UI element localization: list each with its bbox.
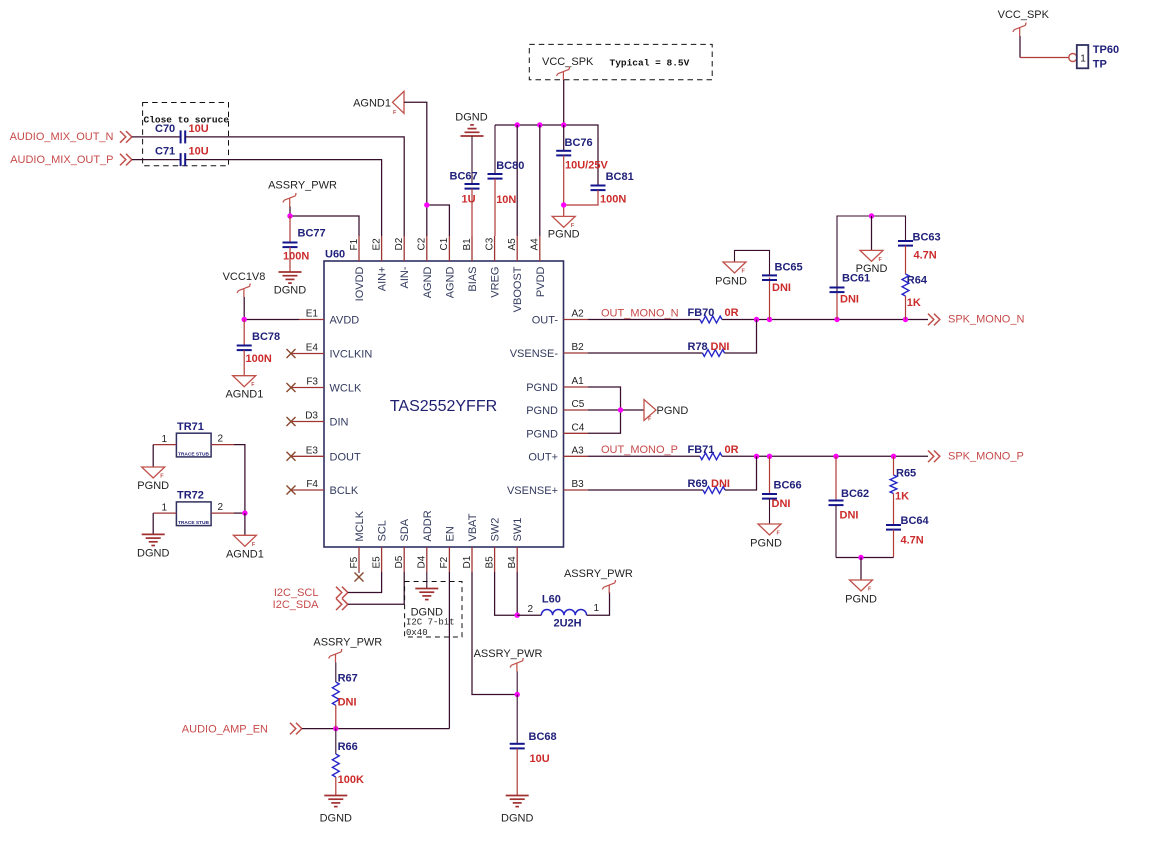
pin E5 SCL (bottom)	[381, 547, 383, 572]
svg-text:BC66: BC66	[774, 480, 802, 492]
svg-text:SW1: SW1	[512, 518, 524, 542]
pin 2 (TR72)	[211, 512, 234, 514]
pin C3 VREG (top)	[494, 236, 496, 261]
pin F5 MCLK (bottom)	[358, 547, 360, 572]
capacitor BC76	[563, 125, 565, 151]
svg-text:I2C_SCL: I2C_SCL	[274, 587, 319, 599]
ground DGND (BC68)	[506, 796, 529, 807]
svg-text:C2: C2	[417, 237, 428, 250]
wire ASSRY_PWR to IOVDD pin F1	[290, 216, 359, 236]
ground AGND1 (TR71/TR72)	[233, 535, 256, 546]
svg-text:E5: E5	[371, 556, 382, 569]
svg-text:PGND: PGND	[526, 428, 558, 440]
ground PGND (TR71)	[142, 467, 165, 478]
capacitor BC62	[835, 456, 837, 500]
node junction BC61 tap	[834, 317, 839, 322]
svg-text:1: 1	[161, 434, 167, 445]
svg-text:100N: 100N	[283, 251, 309, 263]
ground DGND (ADDR)	[415, 589, 438, 600]
pin E2 AIN+ (top)	[381, 236, 383, 261]
wire EN pin F2 down	[448, 572, 450, 729]
svg-text:VCC_SPK: VCC_SPK	[542, 56, 594, 68]
wire R65 to BC64	[893, 494, 895, 526]
pin C1 AGND (top)	[448, 236, 450, 261]
wire to PGND (snubber)	[860, 558, 862, 581]
svg-text:I2C 7-bit: I2C 7-bit	[406, 618, 455, 628]
capacitor BC68	[516, 695, 518, 744]
svg-text:DNI: DNI	[840, 294, 859, 306]
svg-text:BC81: BC81	[606, 171, 634, 183]
wire L60 pin 1 to ASSRY_PWR	[587, 592, 610, 615]
svg-text:OUT-: OUT-	[532, 315, 559, 327]
wire TR72 pin2 to AGND1	[234, 512, 245, 514]
svg-text:TR71: TR71	[177, 421, 204, 433]
node junction PGND drop (BC61 net)	[869, 213, 874, 218]
svg-text:IOVDD: IOVDD	[354, 266, 366, 301]
svg-text:TAS2552YFFR: TAS2552YFFR	[390, 398, 497, 415]
svg-text:DGND: DGND	[274, 285, 306, 297]
svg-text:DIN: DIN	[330, 417, 349, 429]
wire BC78 to AGND1	[243, 350, 245, 376]
svg-text:A3: A3	[572, 445, 585, 456]
svg-text:10U: 10U	[189, 146, 209, 158]
pin 1 (TR72)	[153, 512, 176, 514]
svg-text:BC65: BC65	[775, 262, 803, 274]
svg-text:2: 2	[528, 604, 534, 615]
pin D3 DIN (left)	[291, 421, 324, 423]
node junction at BC77 top	[287, 213, 292, 218]
no-connect X at pin D3	[287, 417, 296, 426]
wire TR72 pin1 to DGND	[152, 513, 154, 534]
wire VCC_SPK stem down to net	[563, 80, 565, 125]
svg-text:BC64: BC64	[901, 515, 930, 527]
svg-text:DNI: DNI	[338, 697, 357, 709]
svg-text:PGND: PGND	[845, 594, 877, 606]
svg-text:SPK_MONO_N: SPK_MONO_N	[948, 314, 1024, 326]
svg-text:F1: F1	[349, 238, 360, 250]
pin A5 VBOOST (top)	[516, 236, 518, 261]
svg-text:10U: 10U	[530, 753, 550, 765]
svg-text:DNI: DNI	[772, 498, 791, 510]
svg-text:4.7N: 4.7N	[914, 250, 937, 262]
pin F4 BCLK (left)	[291, 489, 324, 491]
svg-text:F2: F2	[439, 556, 450, 568]
node junction R78 tap	[754, 317, 759, 322]
svg-text:0R: 0R	[725, 307, 739, 319]
wire R66 to DGND	[335, 777, 337, 796]
testpoint TP60 pin circle	[1069, 54, 1077, 62]
pin A1 PGND (right)	[564, 386, 589, 388]
svg-text:A1: A1	[572, 376, 585, 387]
svg-text:I2C_SDA: I2C_SDA	[273, 599, 320, 611]
svg-text:PGND: PGND	[526, 382, 558, 394]
wire net to VBOOST pin A5	[516, 125, 518, 236]
pin C4 PGND (right)	[564, 432, 589, 434]
svg-text:SW2: SW2	[490, 518, 502, 542]
svg-text:0R: 0R	[725, 444, 739, 456]
svg-text:E1: E1	[306, 309, 319, 320]
svg-text:VBAT: VBAT	[467, 513, 479, 541]
svg-text:AVDD: AVDD	[330, 315, 360, 327]
svg-text:B3: B3	[572, 479, 585, 490]
svg-text:PGND: PGND	[526, 405, 558, 417]
wire I2C_SCL to SCL pin E5	[348, 572, 382, 593]
svg-text:R65: R65	[896, 468, 916, 480]
node junction R69 tap	[754, 454, 759, 459]
wire I2C_SDA to SDA pin D5	[348, 572, 404, 604]
node junction BC66 tap	[767, 454, 772, 459]
svg-text:AGND1: AGND1	[353, 97, 391, 109]
wire AUDIO_MIX_OUT_N to C70	[132, 136, 181, 138]
ground DGND (R66)	[324, 796, 347, 807]
svg-text:EN: EN	[444, 526, 456, 541]
node junction VBAT/BC68	[515, 692, 520, 697]
note box I2C address (dashed)	[405, 582, 462, 638]
svg-text:R64: R64	[907, 275, 928, 287]
ground PGND (BC76)	[552, 216, 575, 227]
pin B1 BIAS (top)	[471, 236, 473, 261]
svg-text:1U: 1U	[462, 194, 476, 206]
wire VCC1V8 to AVDD pin E1	[244, 319, 299, 321]
pin 1 (TR71)	[153, 444, 176, 446]
capacitor BC80	[494, 125, 496, 174]
svg-text:A5: A5	[507, 238, 518, 251]
note box VCC_SPK Typical = 8.5V (dashed)	[529, 44, 712, 79]
wire C70 to AIN- pin D2	[185, 137, 404, 236]
no-connect X at pin E4	[287, 349, 296, 358]
svg-text:ASSRY_PWR: ASSRY_PWR	[313, 637, 382, 649]
ground PGND (snubber)	[850, 580, 873, 591]
no-connect X at pin F5 MCLK	[358, 572, 360, 573]
svg-text:F4: F4	[306, 479, 318, 490]
capacitor BC66	[769, 456, 771, 494]
wire BC61/R64 top link	[836, 292, 838, 320]
svg-text:A2: A2	[572, 309, 585, 320]
note box 'Close to soruce' (dashed)	[143, 103, 229, 166]
pin A2 OUT- (right)	[564, 319, 589, 321]
wire BC77 to DGND	[289, 247, 291, 272]
ground PGND (BC66)	[758, 524, 781, 535]
wire R69 up to OUT_MONO_P net	[725, 456, 757, 490]
svg-text:AUDIO_MIX_OUT_P: AUDIO_MIX_OUT_P	[10, 154, 113, 166]
svg-text:ASSRY_PWR: ASSRY_PWR	[474, 648, 543, 660]
svg-text:ASSRY_PWR: ASSRY_PWR	[564, 568, 633, 580]
node junction VCC_SPK stem	[561, 122, 566, 127]
svg-text:F5: F5	[349, 556, 360, 568]
wire FB70 to SPK_MONO_N port	[722, 319, 928, 321]
svg-text:TR72: TR72	[177, 490, 204, 502]
svg-text:IVCLKIN: IVCLKIN	[330, 349, 373, 361]
svg-text:BCLK: BCLK	[330, 485, 359, 497]
svg-text:D3: D3	[305, 411, 318, 422]
wire snubber bottom tie	[836, 557, 894, 559]
svg-text:WCLK: WCLK	[330, 383, 362, 395]
svg-text:PGND: PGND	[750, 538, 782, 550]
pin F3 WCLK (left)	[291, 387, 324, 389]
no-connect X at pin F4	[287, 486, 296, 495]
wire BC81 to PGND node	[564, 190, 598, 205]
svg-text:BC78: BC78	[252, 331, 280, 343]
trace stub TR72	[176, 502, 211, 526]
svg-text:TRACE STUB: TRACE STUB	[178, 452, 209, 458]
port AUDIO_MIX_OUT_N	[120, 131, 132, 143]
svg-text:R66: R66	[338, 741, 358, 753]
node junction AGND at C2 column	[424, 202, 429, 207]
wire AUDIO_AMP_EN	[302, 728, 450, 730]
svg-text:DGND: DGND	[455, 112, 487, 124]
port AUDIO_MIX_OUT_P	[120, 154, 132, 166]
wire R67 to AUDIO_AMP_EN node	[335, 705, 337, 728]
wire OUT- to FB70	[588, 319, 700, 321]
svg-text:100N: 100N	[246, 353, 272, 365]
svg-text:R78: R78	[688, 341, 708, 353]
svg-text:DGND: DGND	[137, 548, 169, 560]
svg-text:4.7N: 4.7N	[901, 535, 924, 547]
capacitor BC64	[886, 525, 901, 530]
node junction PGND tie	[618, 407, 623, 412]
svg-text:C3: C3	[484, 237, 495, 250]
ground PGND (right-pointing, pins A1/C5/C4)	[644, 400, 656, 421]
wire VCC_SPK horizontal net	[495, 125, 598, 186]
svg-text:DGND: DGND	[501, 813, 533, 825]
svg-text:2U2H: 2U2H	[554, 618, 582, 630]
svg-text:BC63: BC63	[913, 232, 941, 244]
svg-text:10N: 10N	[496, 194, 516, 206]
capacitor C70	[181, 130, 186, 143]
wire SW node to L60 pin 2	[517, 614, 541, 616]
wire PGND pins A1,C5,C4 tie	[588, 387, 621, 433]
port AUDIO_AMP_EN	[290, 723, 302, 735]
wire BC80 to VREG pin C3	[494, 179, 496, 236]
pin D4 ADDR (bottom)	[426, 547, 428, 572]
wire SW2 pin B5 to SW node	[495, 572, 518, 615]
svg-text:B1: B1	[462, 238, 473, 251]
node junction TR71/TR72 pin2	[242, 510, 247, 515]
capacitor BC78	[243, 320, 245, 346]
capacitor C71	[181, 153, 186, 166]
svg-text:E2: E2	[371, 238, 382, 251]
svg-text:ASSRY_PWR: ASSRY_PWR	[268, 180, 337, 192]
no-connect X at pin F3	[287, 383, 296, 392]
node junction at BC78 top	[242, 317, 247, 322]
node junction R65 tap	[891, 454, 896, 459]
svg-text:U60: U60	[325, 249, 345, 261]
ground DGND (BC77)	[279, 272, 302, 283]
wire AGND1 to AGND pins C2,C1	[404, 102, 427, 236]
pin B4 SW1 (bottom)	[516, 547, 518, 572]
svg-text:SDA: SDA	[399, 518, 411, 541]
ground DGND (TR72)	[142, 534, 165, 545]
svg-text:0x40: 0x40	[406, 628, 428, 638]
svg-text:E4: E4	[306, 343, 319, 354]
node junction R66/R67	[333, 726, 338, 731]
svg-text:E3: E3	[306, 445, 319, 456]
svg-text:AGND: AGND	[444, 266, 456, 298]
svg-text:D5: D5	[394, 555, 405, 568]
capacitor BC65	[769, 278, 771, 320]
svg-text:2: 2	[218, 502, 224, 513]
svg-text:DGND: DGND	[320, 813, 352, 825]
svg-text:AGND: AGND	[422, 266, 434, 298]
svg-text:BIAS: BIAS	[467, 267, 479, 292]
wire OUT+ to FB71	[588, 455, 700, 457]
port I2C_SDA	[336, 599, 348, 611]
wire R78 up to OUT_MONO_N net	[725, 320, 757, 354]
op-amp U1: IC U60 TAS2552YFFR body	[324, 261, 564, 547]
wire BC62 to snubber bottom	[835, 505, 837, 557]
pin D2 AIN- (top)	[403, 236, 405, 261]
svg-text:OUT_MONO_N: OUT_MONO_N	[601, 308, 679, 320]
wire C71 to AIN+ pin E2	[185, 160, 381, 236]
node junction at PGND (BC76/BC81)	[561, 202, 566, 207]
svg-text:VCC1V8: VCC1V8	[223, 271, 266, 283]
svg-text:AIN+: AIN+	[377, 267, 389, 292]
node junction R64 tap	[903, 317, 908, 322]
svg-text:BC67: BC67	[450, 171, 478, 183]
node junction BC65 tap	[767, 317, 772, 322]
svg-text:1K: 1K	[907, 297, 921, 309]
svg-text:TRACE STUB: TRACE STUB	[178, 520, 209, 526]
svg-text:VSENSE+: VSENSE+	[507, 485, 558, 497]
svg-text:OUT_MONO_P: OUT_MONO_P	[601, 444, 678, 456]
svg-text:A4: A4	[530, 238, 541, 251]
no-connect X at pin E3	[287, 452, 296, 461]
ground PGND (BC61 net)	[860, 250, 883, 261]
pin C5 PGND (right)	[564, 409, 589, 411]
svg-text:L60: L60	[542, 594, 561, 606]
node junction VBOOST column	[515, 122, 520, 127]
node junction snubber bottom	[858, 555, 863, 560]
svg-text:VSENSE-: VSENSE-	[510, 348, 559, 360]
wire SW1 pin B4 to SW node	[516, 572, 518, 615]
wire VCC_SPK to TP60	[1019, 36, 1021, 58]
capacitor BC63	[898, 241, 913, 246]
svg-text:PGND: PGND	[548, 229, 580, 241]
svg-text:PVDD: PVDD	[535, 266, 547, 297]
svg-text:C5: C5	[572, 399, 585, 410]
wire TR71 pin2 down to AGND1 node	[234, 445, 245, 513]
svg-text:VREG: VREG	[490, 267, 502, 298]
svg-text:C71: C71	[155, 146, 175, 158]
wire R64 to OUT_MONO_N net	[905, 296, 907, 320]
svg-text:D1: D1	[462, 555, 473, 568]
svg-text:AGND1: AGND1	[225, 389, 263, 401]
pin E1 AVDD (left)	[299, 319, 324, 321]
svg-text:DNI: DNI	[840, 510, 859, 522]
svg-text:FB71: FB71	[688, 444, 715, 456]
svg-text:BC68: BC68	[529, 731, 557, 743]
wire TR71 pin1 to PGND	[152, 445, 154, 467]
svg-text:TP60: TP60	[1093, 44, 1119, 56]
ground AGND1 (left-pointing)	[393, 91, 405, 113]
pin D5 SDA (bottom)	[403, 547, 405, 572]
svg-text:1: 1	[594, 603, 600, 614]
svg-text:TP: TP	[1093, 59, 1107, 71]
svg-text:D2: D2	[394, 237, 405, 250]
capacitor BC67	[465, 184, 480, 189]
pin F1 IOVDD (top)	[358, 236, 360, 261]
svg-text:DNI: DNI	[772, 282, 791, 294]
svg-text:PGND: PGND	[657, 405, 689, 417]
wire BC65 to PGND	[735, 250, 770, 275]
wire AUDIO_MIX_OUT_P to C71	[132, 159, 181, 161]
wire net to PVDD pin A4	[539, 125, 541, 236]
pin D1 VBAT (bottom)	[471, 547, 473, 572]
pin B2 VSENSE- (right)	[564, 352, 589, 354]
wire BC76 to PGND node	[563, 155, 565, 216]
node junction BC62 tap	[833, 454, 838, 459]
svg-text:AIN-: AIN-	[399, 266, 411, 288]
power tap VCC_SPK	[557, 67, 570, 81]
svg-text:C4: C4	[572, 422, 585, 433]
port SPK_MONO_N	[928, 314, 940, 326]
svg-text:D4: D4	[417, 555, 428, 568]
svg-text:1K: 1K	[895, 491, 909, 503]
node junction SW	[515, 613, 520, 618]
pin A3 OUT+ (right)	[564, 455, 589, 457]
svg-text:F3: F3	[306, 377, 318, 388]
svg-text:DNI: DNI	[711, 478, 730, 490]
wire ADDR pin D4 to DGND	[426, 572, 428, 589]
svg-text:B2: B2	[572, 342, 585, 353]
capacitor BC77	[289, 216, 291, 243]
svg-text:BC62: BC62	[841, 488, 869, 500]
svg-text:AGND1: AGND1	[226, 549, 264, 561]
pin E4 IVCLKIN (left)	[291, 353, 324, 355]
pin A4 PVDD (top)	[539, 236, 541, 261]
wire BC63 to R64	[905, 246, 907, 274]
svg-text:R69: R69	[688, 478, 708, 490]
svg-text:C70: C70	[155, 123, 175, 135]
svg-text:C1: C1	[439, 237, 450, 250]
svg-text:AUDIO_AMP_EN: AUDIO_AMP_EN	[182, 723, 268, 735]
svg-text:100K: 100K	[338, 774, 364, 786]
pin E3 DOUT (left)	[291, 455, 324, 457]
svg-text:Typical = 8.5V: Typical = 8.5V	[610, 58, 690, 69]
svg-text:B5: B5	[484, 556, 495, 569]
wire branch to AGND pin C1	[427, 205, 450, 236]
svg-text:BC76: BC76	[565, 137, 593, 149]
svg-text:2: 2	[218, 434, 224, 445]
svg-text:MCLK: MCLK	[354, 510, 366, 541]
svg-text:DOUT: DOUT	[330, 451, 361, 463]
pin B3 VSENSE+ (right)	[564, 489, 589, 491]
capacitor BC61	[830, 288, 845, 293]
svg-text:VBOOST: VBOOST	[512, 266, 524, 312]
svg-text:BC61: BC61	[842, 273, 870, 285]
wire to PGND (BC61 net)	[871, 216, 873, 250]
pin B5 SW2 (bottom)	[494, 547, 496, 572]
wire FB71 to SPK_MONO_P port	[722, 455, 928, 457]
svg-text:1: 1	[161, 502, 167, 513]
svg-text:100N: 100N	[600, 194, 626, 206]
trace stub TR71	[176, 433, 211, 457]
wire DGND to BC67	[471, 136, 473, 184]
svg-text:BC77: BC77	[298, 228, 326, 240]
svg-text:AUDIO_MIX_OUT_N: AUDIO_MIX_OUT_N	[10, 131, 114, 143]
wire BC68 to DGND	[516, 748, 518, 795]
wire BC66 to PGND	[769, 499, 771, 524]
svg-text:R67: R67	[338, 673, 358, 685]
svg-text:OUT+: OUT+	[528, 451, 558, 463]
port SPK_MONO_P	[928, 451, 940, 463]
pin F2 EN (bottom)	[448, 547, 450, 572]
svg-text:B4: B4	[507, 556, 518, 569]
svg-text:VCC_SPK: VCC_SPK	[998, 9, 1050, 21]
wire VBAT pin D1 to BC68 node	[472, 572, 517, 695]
svg-text:SCL: SCL	[377, 520, 389, 541]
ground AGND1 (below BC78)	[233, 376, 256, 387]
